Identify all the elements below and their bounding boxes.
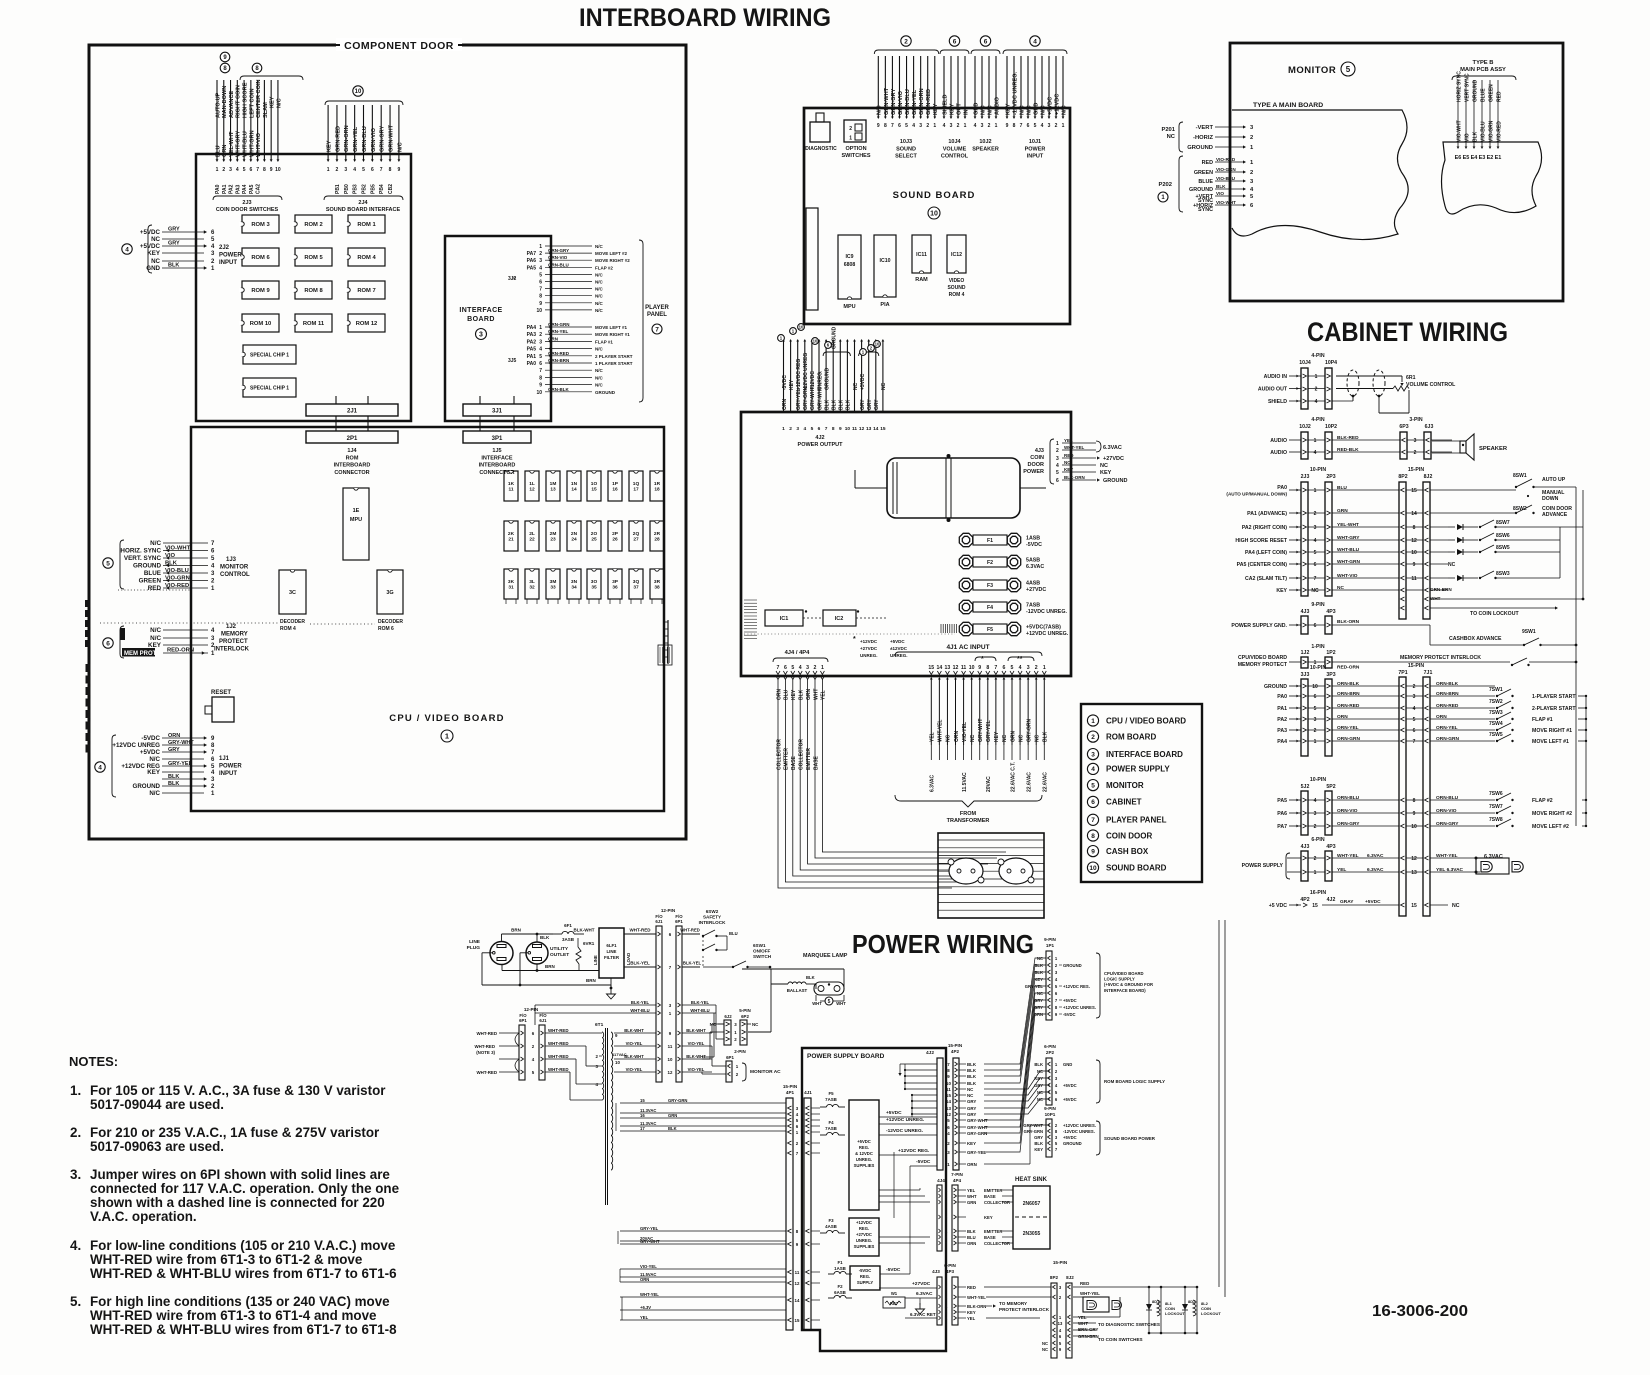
svg-text:IC9: IC9: [845, 254, 853, 260]
svg-text:MARQUEE LAMP: MARQUEE LAMP: [803, 953, 848, 959]
6-pin 2P2 connector: [1034, 1044, 1165, 1105]
svg-text:MOVE LEFT #2: MOVE LEFT #2: [1532, 824, 1569, 830]
svg-text:ORN-GRY: ORN-GRY: [548, 248, 569, 253]
MPU chip 1E: [343, 488, 369, 560]
svg-text:GRN-GRY: GRN-GRY: [891, 89, 897, 115]
svg-text:INTERBOARD: INTERBOARD: [479, 463, 516, 469]
svg-text:FROM: FROM: [960, 811, 977, 817]
bracket 10J4: [940, 50, 969, 54]
svg-text:4J2: 4J2: [815, 435, 824, 441]
svg-text:SPEAKER: SPEAKER: [1479, 446, 1508, 452]
svg-text:PA2: PA2: [229, 184, 235, 194]
svg-text:N/C: N/C: [1040, 105, 1046, 115]
4J2 bar right: [926, 1050, 943, 1170]
power supply box: [741, 412, 1071, 676]
svg-text:6LF1: 6LF1: [606, 943, 617, 948]
svg-text:9: 9: [1413, 562, 1416, 568]
svg-text:2P: 2P: [612, 531, 619, 537]
svg-text:WHT-RED & WHT-BLU wires from 6: WHT-RED & WHT-BLU wires from 6T1-7 to 6T…: [90, 1322, 397, 1337]
svg-text:4: 4: [353, 167, 356, 173]
svg-text:9: 9: [839, 426, 842, 432]
svg-text:NC: NC: [1042, 1347, 1048, 1352]
svg-text:COIN DOOR: COIN DOOR: [1106, 831, 1152, 840]
ROM 1 chip: [348, 215, 385, 233]
svg-text:GRN: GRN: [668, 1113, 677, 1118]
svg-text:BLK: BLK: [967, 1062, 977, 1067]
svg-text:-12VDC UNREG.: -12VDC UNREG.: [1012, 71, 1018, 115]
svg-text:6.3VAC RET: 6.3VAC RET: [910, 1312, 936, 1317]
svg-text:ROM 7: ROM 7: [357, 288, 375, 294]
svg-text:TO DIAGNOSTIC SWITCHES: TO DIAGNOSTIC SWITCHES: [1098, 1322, 1160, 1327]
svg-text:DECODER: DECODER: [378, 619, 403, 625]
svg-text:6.3VAC: 6.3VAC: [930, 774, 936, 792]
svg-text:BLK-WHT: BLK-WHT: [624, 1028, 644, 1033]
svg-text:31: 31: [508, 585, 514, 591]
svg-text:4J4 / 4P4: 4J4 / 4P4: [785, 650, 811, 656]
svg-text:38: 38: [654, 585, 660, 591]
svg-text:5017-09063 are used.: 5017-09063 are used.: [90, 1139, 224, 1154]
svg-text:FLAP #2: FLAP #2: [595, 265, 613, 270]
svg-text:4: 4: [943, 123, 946, 129]
svg-text:F2: F2: [837, 1284, 843, 1289]
1J1 bracket: [112, 735, 116, 797]
svg-text:7: 7: [1020, 123, 1023, 129]
svg-text:BLK-WHT: BLK-WHT: [686, 1054, 706, 1059]
2J2 connector label: [219, 245, 242, 266]
right edge card connector: [658, 530, 672, 665]
svg-text:PA6: PA6: [1277, 811, 1287, 817]
svg-text:-12VDC UNREG: -12VDC UNREG: [803, 353, 809, 390]
svg-text:3.: 3.: [70, 1167, 81, 1182]
svg-text:GRN-VIO: GRN-VIO: [371, 127, 377, 152]
svg-text:10: 10: [615, 1060, 620, 1065]
svg-text:1: 1: [1314, 488, 1317, 494]
transistor 2N6057 package: [948, 858, 984, 884]
svg-text:+5VDC: +5VDC: [1063, 1083, 1077, 1088]
circled ref 5 monitor: [103, 558, 113, 568]
svg-text:10J1: 10J1: [1029, 139, 1041, 145]
1J1 label: [219, 756, 242, 777]
svg-text:3ASB: 3ASB: [562, 937, 575, 942]
svg-text:2P3: 2P3: [1326, 474, 1335, 480]
svg-text:1R: 1R: [654, 481, 661, 487]
svg-text:NC: NC: [970, 734, 976, 742]
svg-text:6: 6: [1314, 623, 1317, 629]
svg-text:GRY: GRY: [1034, 998, 1043, 1003]
svg-text:2R: 2R: [654, 531, 661, 537]
svg-text:10: 10: [930, 211, 938, 218]
svg-text:GRN-WHT: GRN-WHT: [884, 87, 890, 115]
svg-text:WHT-RED: WHT-RED: [548, 1028, 569, 1033]
svg-text:+5VDC: +5VDC: [140, 229, 161, 236]
row3 chip pin ticks: [506, 599, 662, 604]
svg-text:AUDIO OUT: AUDIO OUT: [1258, 387, 1288, 393]
svg-text:(NOTE 3): (NOTE 3): [476, 1050, 495, 1055]
svg-text:BLK-ORN: BLK-ORN: [1064, 475, 1085, 480]
ROM 5 chip: [295, 248, 332, 266]
interface board box: [445, 236, 551, 421]
svg-text:GRAY: GRAY: [1340, 899, 1354, 905]
svg-text:28: 28: [654, 537, 660, 543]
svg-text:20VAC: 20VAC: [986, 776, 992, 792]
svg-text:1: 1: [539, 325, 542, 331]
filter ground: [607, 978, 616, 999]
svg-text:6F1: 6F1: [564, 923, 572, 928]
svg-text:6: 6: [1056, 478, 1059, 484]
legend item 2 ROM BOARD: [1087, 731, 1156, 742]
svg-text:SPEAKER: SPEAKER: [972, 146, 999, 152]
svg-text:7: 7: [994, 665, 997, 671]
svg-text:6: 6: [1091, 799, 1095, 806]
6J1 pin numbers: [668, 932, 673, 1075]
svg-text:2: 2: [539, 251, 542, 257]
svg-text:YEL-WHT: YEL-WHT: [229, 131, 235, 157]
svg-text:WHT-RED: WHT-RED: [548, 1041, 569, 1046]
svg-text:3: 3: [1314, 811, 1317, 817]
4P1 connector bar: [786, 1098, 793, 1330]
type B wires and labels: [1455, 71, 1503, 161]
svg-text:3: 3: [539, 339, 542, 345]
svg-text:2J3: 2J3: [1301, 474, 1310, 480]
10J1 connector label: [1025, 139, 1046, 160]
svg-text:POWER: POWER: [219, 253, 242, 259]
svg-text:WHT-YEL: WHT-YEL: [938, 720, 944, 743]
svg-text:VIO-YEL: VIO-YEL: [688, 1041, 705, 1046]
8P2 connector bar: [1399, 482, 1406, 619]
svg-text:GRN-GRY: GRN-GRY: [380, 126, 386, 152]
svg-text:INPUT: INPUT: [219, 260, 237, 266]
svg-text:6: 6: [898, 123, 901, 129]
svg-text:2J1: 2J1: [347, 409, 358, 415]
2J3 connector bar: [1301, 482, 1308, 596]
1J2 bracket: [120, 626, 124, 658]
svg-text:BLU: BLU: [729, 931, 738, 936]
svg-text:WHT: WHT: [812, 1001, 822, 1006]
svg-text:+12VDC: +12VDC: [1054, 94, 1060, 115]
svg-text:2: 2: [789, 426, 792, 432]
svg-text:2P1: 2P1: [347, 436, 358, 442]
svg-text:SHIELD: SHIELD: [942, 94, 948, 115]
8SW1 auto up switch: [1448, 473, 1576, 490]
svg-text:GRY-WHT: GRY-WHT: [810, 387, 816, 410]
varistor 6VR1: [576, 938, 595, 970]
svg-text:1J2: 1J2: [226, 624, 237, 630]
svg-text:BLK: BLK: [1472, 131, 1478, 142]
svg-text:GRN-WHT: GRN-WHT: [388, 124, 394, 152]
circled ref 4 power: [122, 244, 132, 254]
svg-text:VIO-YEL: VIO-YEL: [626, 1067, 643, 1072]
svg-text:GROUND: GROUND: [1187, 145, 1213, 151]
circled ref 1 cpu: [441, 730, 453, 742]
svg-text:2: 2: [1314, 511, 1317, 517]
svg-text:7SW5: 7SW5: [1489, 732, 1503, 738]
svg-text:7SW7: 7SW7: [1489, 804, 1503, 810]
svg-text:KEY: KEY: [1005, 103, 1011, 115]
10J2 connector bar: [1301, 432, 1308, 459]
svg-text:BLK: BLK: [824, 399, 830, 410]
from transformer bracket: [895, 795, 1042, 824]
15-pin 7P1/7J1 labels: [1398, 663, 1432, 676]
svg-text:7SW8: 7SW8: [1489, 817, 1503, 823]
svg-text:10-PIN: 10-PIN: [1310, 467, 1326, 473]
ROM board box 2J3/2J4: [196, 154, 411, 421]
svg-text:7SW6: 7SW6: [1489, 791, 1503, 797]
circled ref 2: [901, 36, 911, 46]
svg-text:TRANSFORMER: TRANSFORMER: [947, 818, 990, 824]
svg-text:3: 3: [1027, 665, 1030, 671]
svg-text:4: 4: [539, 265, 542, 271]
svg-text:2-PIN: 2-PIN: [734, 1049, 746, 1054]
svg-text:MEMORY PROTECT: MEMORY PROTECT: [1238, 662, 1288, 668]
svg-text:SOUND: SOUND: [947, 285, 965, 291]
svg-text:10: 10: [536, 308, 542, 314]
svg-text:LOCKOUT: LOCKOUT: [1201, 1311, 1221, 1316]
1J2 label: [214, 624, 250, 653]
svg-text:CASHBOX ADVANCE: CASHBOX ADVANCE: [1449, 636, 1502, 642]
svg-text:N/C: N/C: [595, 301, 604, 306]
regulator box +12vdc +27vdc: [849, 1218, 879, 1256]
ROM 12 chip: [348, 314, 385, 332]
svg-text:GRY-WHT: GRY-WHT: [978, 719, 984, 742]
svg-text:10: 10: [1411, 550, 1417, 556]
svg-text:GRN: GRN: [222, 145, 228, 157]
svg-text:WHT-YEL: WHT-YEL: [640, 1292, 659, 1297]
svg-text:13: 13: [866, 426, 872, 432]
svg-text:ORN: ORN: [776, 689, 782, 701]
svg-text:VERT. SYNC: VERT. SYNC: [124, 555, 162, 562]
svg-text:VIO-GRN: VIO-GRN: [1488, 120, 1494, 142]
svg-text:1J2: 1J2: [1301, 650, 1310, 656]
svg-text:LOGIC SUPPLY: LOGIC SUPPLY: [1104, 977, 1135, 982]
svg-text:6: 6: [818, 426, 821, 432]
svg-text:GROUND: GROUND: [1189, 187, 1213, 193]
svg-text:GRN-BRN: GRN-BRN: [1078, 1334, 1099, 1339]
svg-text:TO MEMORY: TO MEMORY: [999, 1301, 1027, 1306]
svg-text:N/C: N/C: [150, 627, 161, 634]
svg-text:BLK: BLK: [1034, 1062, 1043, 1067]
player panel rows 5J2: [1277, 791, 1572, 830]
svg-text:6: 6: [1413, 728, 1416, 734]
ROM 4 chip: [348, 248, 385, 266]
svg-text:-5VDC: -5VDC: [782, 375, 788, 390]
svg-text:6.3VAC: 6.3VAC: [1367, 853, 1384, 859]
svg-text:VIO-YEL: VIO-YEL: [688, 1067, 705, 1072]
svg-text:BLK-WHT: BLK-WHT: [574, 928, 595, 933]
svg-text:BLK: BLK: [540, 935, 550, 940]
svg-text:INTERBOARD WIRING: INTERBOARD WIRING: [579, 4, 831, 32]
svg-text:INTERFACE BOARD): INTERFACE BOARD): [1104, 988, 1146, 993]
svg-text:5: 5: [1011, 665, 1014, 671]
svg-text:PA5: PA5: [1277, 798, 1287, 804]
svg-text:N/C: N/C: [595, 294, 604, 299]
chip 1N 14: [567, 471, 581, 501]
svg-text:3: 3: [1056, 456, 1059, 462]
svg-text:4P2: 4P2: [1300, 897, 1309, 903]
asterisk notes: [853, 636, 1034, 663]
svg-text:BLK: BLK: [1043, 731, 1049, 742]
svg-text:8: 8: [832, 426, 835, 432]
7J1 connector bar: [1423, 677, 1430, 916]
svg-text:ROM 5: ROM 5: [304, 255, 323, 261]
1P2 bar: [1325, 657, 1332, 668]
svg-text:14: 14: [795, 1298, 800, 1303]
svg-text:NC: NC: [946, 734, 952, 742]
svg-text:PA2: PA2: [1277, 717, 1287, 723]
note 1: [70, 1083, 386, 1112]
svg-text:ORN-GRY: ORN-GRY: [1337, 821, 1360, 827]
svg-text:10P1: 10P1: [1045, 1112, 1056, 1117]
svg-text:PA1: PA1: [527, 354, 537, 360]
svg-text:KEY: KEY: [327, 140, 333, 152]
supply output labels: [879, 1110, 937, 1318]
svg-text:BOARD: BOARD: [467, 316, 495, 323]
chip 1O 15: [587, 471, 601, 501]
svg-text:-5VDC: -5VDC: [1026, 542, 1042, 548]
svg-text:10-PIN: 10-PIN: [1310, 777, 1326, 783]
svg-text:KEY: KEY: [147, 250, 161, 257]
svg-text:6: 6: [1314, 694, 1317, 700]
svg-text:9: 9: [1413, 811, 1416, 817]
svg-text:BLK: BLK: [1034, 970, 1043, 975]
svg-text:8: 8: [263, 167, 266, 173]
svg-text:2: 2: [1315, 387, 1318, 393]
svg-text:4P3: 4P3: [946, 1269, 955, 1274]
left edge connector bar lower: [86, 664, 91, 753]
chip 3L 32: [525, 569, 539, 599]
svg-text:15-PIN: 15-PIN: [1408, 663, 1424, 669]
long vertical wires cabinet to bottom right: [1197, 920, 1225, 1297]
10J3 pin numbers: [877, 123, 936, 129]
svg-text:3: 3: [479, 332, 483, 339]
svg-text:N/C: N/C: [987, 105, 993, 115]
svg-text:ORN: ORN: [1034, 1012, 1043, 1017]
svg-text:N/C: N/C: [595, 375, 604, 380]
svg-text:VIO-YEL: VIO-YEL: [626, 1041, 643, 1046]
svg-text:CONNECTOR: CONNECTOR: [334, 470, 369, 476]
special chip 1 (upper): [243, 345, 296, 364]
svg-text:GRN-YEL: GRN-YEL: [912, 89, 918, 115]
svg-text:NC: NC: [1037, 991, 1043, 996]
6P1 connector bar: [676, 926, 682, 1082]
svg-text:WHT-YEL: WHT-YEL: [1436, 853, 1458, 859]
svg-text:±12VDC: ±12VDC: [890, 646, 908, 651]
svg-text:12: 12: [859, 426, 865, 432]
svg-text:PA3: PA3: [1277, 728, 1287, 734]
circled ref 4: [1030, 36, 1040, 46]
chip 2L 22: [525, 521, 539, 551]
chip 1R 18: [650, 471, 664, 501]
svg-text:ADVANCE: ADVANCE: [1542, 512, 1568, 518]
legend item 5 MONITOR: [1087, 780, 1143, 791]
svg-text:4: 4: [236, 167, 239, 173]
svg-text:N/C: N/C: [276, 98, 282, 108]
svg-text:3: 3: [1091, 751, 1095, 758]
svg-text:F2: F2: [987, 560, 993, 566]
svg-text:1Q: 1Q: [633, 481, 640, 487]
svg-text:6R1: 6R1: [1406, 375, 1416, 381]
svg-text:3P3: 3P3: [1326, 672, 1335, 678]
svg-text:MOVE LEFT #1: MOVE LEFT #1: [595, 325, 628, 330]
chip 3M 33: [546, 569, 560, 599]
svg-text:3: 3: [806, 665, 809, 671]
svg-text:2M: 2M: [550, 531, 557, 537]
svg-text:2N3055: 2N3055: [1023, 1231, 1041, 1237]
svg-text:+27VDC: +27VDC: [860, 646, 878, 651]
svg-text:-5VDC: -5VDC: [916, 1159, 931, 1165]
svg-text:HEAT SINK: HEAT SINK: [1015, 1177, 1048, 1183]
svg-text:OUT: OUT: [956, 103, 962, 115]
svg-text:COLLECTOR: COLLECTOR: [799, 739, 805, 770]
svg-text:ORN: ORN: [548, 336, 558, 341]
svg-text:-HORIZ: -HORIZ: [1193, 135, 1213, 141]
svg-text:Jumper wires on 6PI shown with: Jumper wires on 6PI shown with solid lin…: [90, 1167, 390, 1182]
chip 2Q 27: [629, 521, 643, 551]
svg-text:-5VDC: -5VDC: [1063, 1012, 1076, 1017]
svg-text:34: 34: [571, 585, 577, 591]
svg-text:BLK: BLK: [967, 1074, 977, 1079]
svg-text:CA2: CA2: [256, 184, 262, 194]
svg-text:BRN: BRN: [586, 978, 596, 983]
svg-text:15: 15: [1411, 488, 1417, 494]
svg-text:2: 2: [926, 123, 929, 129]
dotted rail across power supply: [744, 633, 955, 635]
volume control potentiometer 6R1: [1336, 375, 1456, 391]
svg-text:MOVE RIGHT #1: MOVE RIGHT #1: [1532, 728, 1572, 734]
svg-text:INTERFACE: INTERFACE: [481, 455, 513, 461]
4P2 bar right: [946, 1043, 1000, 1170]
IC2 chip: [823, 610, 856, 626]
3J3 connector bar: [1301, 679, 1308, 756]
10J2 rotated labels: [973, 96, 1000, 115]
svg-text:8P2: 8P2: [1050, 1275, 1059, 1280]
svg-text:6J1: 6J1: [655, 919, 663, 924]
svg-text:2N: 2N: [571, 531, 578, 537]
svg-text:13: 13: [945, 665, 951, 671]
svg-text:DECODER: DECODER: [280, 619, 305, 625]
svg-text:VIO-YEL: VIO-YEL: [640, 1264, 657, 1269]
svg-text:3: 3: [950, 123, 953, 129]
svg-text:E5: E5: [1463, 155, 1470, 161]
svg-text:MEMORY PROTECT INTERLOCK: MEMORY PROTECT INTERLOCK: [1400, 655, 1481, 661]
svg-text:-12VDC UNRES.: -12VDC UNRES.: [1063, 1129, 1095, 1134]
ROM 7 chip: [348, 281, 385, 299]
svg-text:NC: NC: [1337, 585, 1344, 591]
svg-text:3: 3: [229, 167, 232, 173]
svg-text:NC: NC: [1167, 134, 1176, 140]
svg-text:PA0: PA0: [215, 184, 221, 194]
svg-text:KEY: KEY: [1034, 1076, 1043, 1081]
svg-text:7: 7: [256, 167, 259, 173]
svg-text:1.: 1.: [70, 1083, 81, 1098]
svg-text:PA7: PA7: [1277, 824, 1287, 830]
svg-text:BLK-YEL: BLK-YEL: [691, 1000, 710, 1005]
svg-text:4: 4: [974, 123, 977, 129]
svg-text:PB4: PB4: [379, 184, 385, 194]
svg-text:E6: E6: [1455, 155, 1462, 161]
svg-text:2-PLAYER START: 2-PLAYER START: [1532, 706, 1576, 712]
svg-text:6: 6: [784, 665, 787, 671]
svg-text:NC: NC: [1452, 903, 1460, 909]
2-pin 6P1 monitor ac connector: [726, 1049, 781, 1082]
svg-text:GROUND: GROUND: [133, 563, 161, 570]
svg-text:KEY: KEY: [1276, 588, 1287, 594]
coin door wire color labels: [215, 130, 262, 157]
svg-text:WHT: WHT: [1430, 596, 1441, 601]
chip 1M 13: [546, 471, 560, 501]
svg-text:6ASB: 6ASB: [834, 1290, 846, 1295]
2J3 connector label: [213, 196, 282, 213]
svg-text:10: 10: [536, 390, 542, 396]
